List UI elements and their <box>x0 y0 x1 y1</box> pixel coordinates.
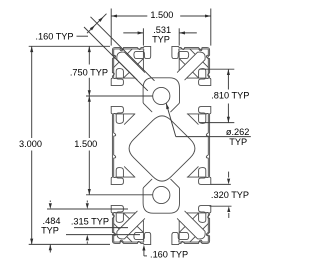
centerline extension lower hole <box>86 194 153 196</box>
right upper slot bottom finger <box>199 114 209 124</box>
corner spoke web edge top-left <box>123 59 143 79</box>
svg-text:.320 TYP: .320 TYP <box>211 190 249 200</box>
top slot left finger <box>134 49 144 59</box>
dim .315 extension line lower <box>66 234 140 236</box>
T-slot void left lower <box>111 177 135 213</box>
center bore hole upper <box>153 87 170 104</box>
dim .484 arrow bottom <box>49 245 52 251</box>
svg-text:.810 TYP: .810 TYP <box>211 91 249 101</box>
corner cavity passage edge top-left <box>135 70 144 78</box>
dim .320 extension line upper <box>211 183 231 185</box>
corner void walls top-left <box>114 49 144 78</box>
dim .531 extension line right <box>178 28 180 45</box>
dim .484 arrow top <box>49 203 52 209</box>
inner passage edge unit2 left <box>124 167 134 177</box>
dim .750 dimension line <box>88 46 90 64</box>
left lower slot top finger <box>114 168 124 178</box>
leader dia .262 arrowhead <box>166 103 169 109</box>
T-slot void right lower <box>187 177 211 213</box>
corner brace wall top-left <box>114 49 133 68</box>
corner cavity passage edge bottom-left <box>135 213 144 221</box>
leader .160 web face extension diagonal 1 <box>91 17 155 81</box>
corner radial web channel top-left <box>117 52 145 80</box>
dim 3.000 arrow top <box>30 46 33 52</box>
T-slot void left upper <box>111 78 135 114</box>
dim .750 arrow top <box>88 46 91 52</box>
dim .810 extension line upper <box>200 68 235 70</box>
extension line below .315 text <box>74 227 128 229</box>
dim 3.000 arrow bottom <box>30 239 33 245</box>
dim 1.500 hole spacing dimension line <box>88 96 90 138</box>
corner cavity passage edge bottom-right <box>179 213 187 221</box>
svg-text:.750 TYP: .750 TYP <box>70 67 108 77</box>
dim .320 extension line lower <box>210 205 232 207</box>
leader .160 arrowhead 2 <box>90 25 95 30</box>
dim 3.000 dimension line <box>31 46 33 138</box>
right upper slot top finger <box>199 69 209 79</box>
centerline extension upper hole <box>86 95 153 97</box>
inner passage edge unit1 left <box>124 114 134 124</box>
svg-text:.160 TYP: .160 TYP <box>35 32 73 42</box>
top slot right finger <box>179 49 189 59</box>
leader .160 connector <box>87 14 107 34</box>
dim .810 arrow bottom <box>227 117 230 123</box>
inner passage edge unit2 right <box>188 167 198 177</box>
corner brace wall bottom-left <box>114 224 133 243</box>
dim 1.500 width arrow right <box>205 14 211 17</box>
leader .160 wall thickness dash <box>77 35 89 37</box>
right lower slot top finger <box>199 168 209 178</box>
dim .810 extension line lower <box>200 122 235 124</box>
center bore hole lower <box>153 186 170 203</box>
dim .320 dimension line tails <box>228 172 230 178</box>
corner radial web channel bottom-left <box>117 211 145 239</box>
right lower slot bottom finger <box>199 213 209 223</box>
corner brace wall top-right <box>190 49 209 68</box>
dim .531 dimension line <box>123 32 143 34</box>
corner void walls top-right <box>179 49 208 78</box>
extrusion outer boundary with serrations and pads <box>111 46 211 244</box>
leader .160 arrowhead 1 <box>98 17 103 22</box>
svg-text:.531: .531 <box>153 25 171 35</box>
dim .750 arrow bottom <box>88 90 91 96</box>
dim .484 dimension line tails <box>49 201 51 203</box>
inner passage edge unit1 right <box>188 114 198 124</box>
mid wall relief line right <box>206 114 208 178</box>
corner spoke web edge bottom-right <box>179 213 198 233</box>
svg-text:1.500: 1.500 <box>150 10 173 20</box>
dim .315 arrow bottom <box>86 235 89 241</box>
dim 1.500 overall width extension line right <box>210 9 212 46</box>
dim .315 extension line upper <box>47 208 128 210</box>
dim 1.500 width arrow left <box>111 14 117 17</box>
leader .160 web face extension diagonal 2 <box>84 27 148 91</box>
corner brace wall bottom-right <box>190 224 209 243</box>
leader dia .262 <box>166 103 176 136</box>
svg-text:TYP: TYP <box>41 226 59 236</box>
svg-text:3.000: 3.000 <box>19 139 42 149</box>
dim 1.500 spacing arrow bottom <box>88 189 91 195</box>
svg-text:1.500: 1.500 <box>74 139 97 149</box>
left upper slot top finger <box>114 69 124 79</box>
corner radial web channel bottom-right <box>177 211 205 239</box>
dim 3.000 extension line bottom <box>29 243 110 245</box>
T-slot void right upper <box>187 78 211 114</box>
corner cavity passage edge top-right <box>179 70 187 78</box>
central square cavity <box>129 116 195 181</box>
svg-text:.315 TYP: .315 TYP <box>71 217 109 227</box>
dim 1.500 spacing arrow top <box>88 96 91 102</box>
corner spoke web edge top-right <box>179 59 198 79</box>
center boss upper <box>143 78 179 112</box>
mid wall relief line left <box>114 114 116 178</box>
corner void walls bottom-right <box>179 213 208 242</box>
T-slot void top <box>143 46 179 70</box>
dim 1.500 overall width extension line left <box>110 9 112 46</box>
leader .160 bottom arrowhead <box>142 245 145 251</box>
T-slot void bottom <box>143 221 179 245</box>
corner void walls bottom-left <box>114 213 144 242</box>
bottom slot right finger <box>179 232 189 242</box>
dim .320 arrow top <box>227 179 230 185</box>
center boss lower <box>143 179 179 213</box>
leader .160 bottom lip <box>143 249 145 256</box>
bottom slot left finger <box>134 232 144 242</box>
dim .320 arrow bottom <box>227 206 230 212</box>
dim .315 arrow top <box>86 203 89 209</box>
svg-text:.160 TYP: .160 TYP <box>150 250 188 260</box>
corner spoke web edge bottom-left <box>123 213 143 233</box>
dim .810 arrow top <box>227 69 230 75</box>
dim .531 extension line left <box>142 28 144 45</box>
dim 1.500 overall width dimension line <box>111 15 147 17</box>
svg-text:TYP: TYP <box>152 35 170 45</box>
svg-text:ø.262: ø.262 <box>226 127 250 137</box>
svg-text:TYP: TYP <box>229 137 247 147</box>
dim .315 dimension line tails <box>86 201 88 203</box>
dim .531 arrow right <box>179 31 185 34</box>
dim .810 dimension line <box>227 69 229 89</box>
corner radial web channel top-right <box>177 52 205 80</box>
left lower slot bottom finger <box>114 213 124 223</box>
left upper slot bottom finger <box>114 114 124 124</box>
dim .531 arrow left <box>138 31 144 34</box>
dim 3.000 extension line top <box>29 45 110 47</box>
